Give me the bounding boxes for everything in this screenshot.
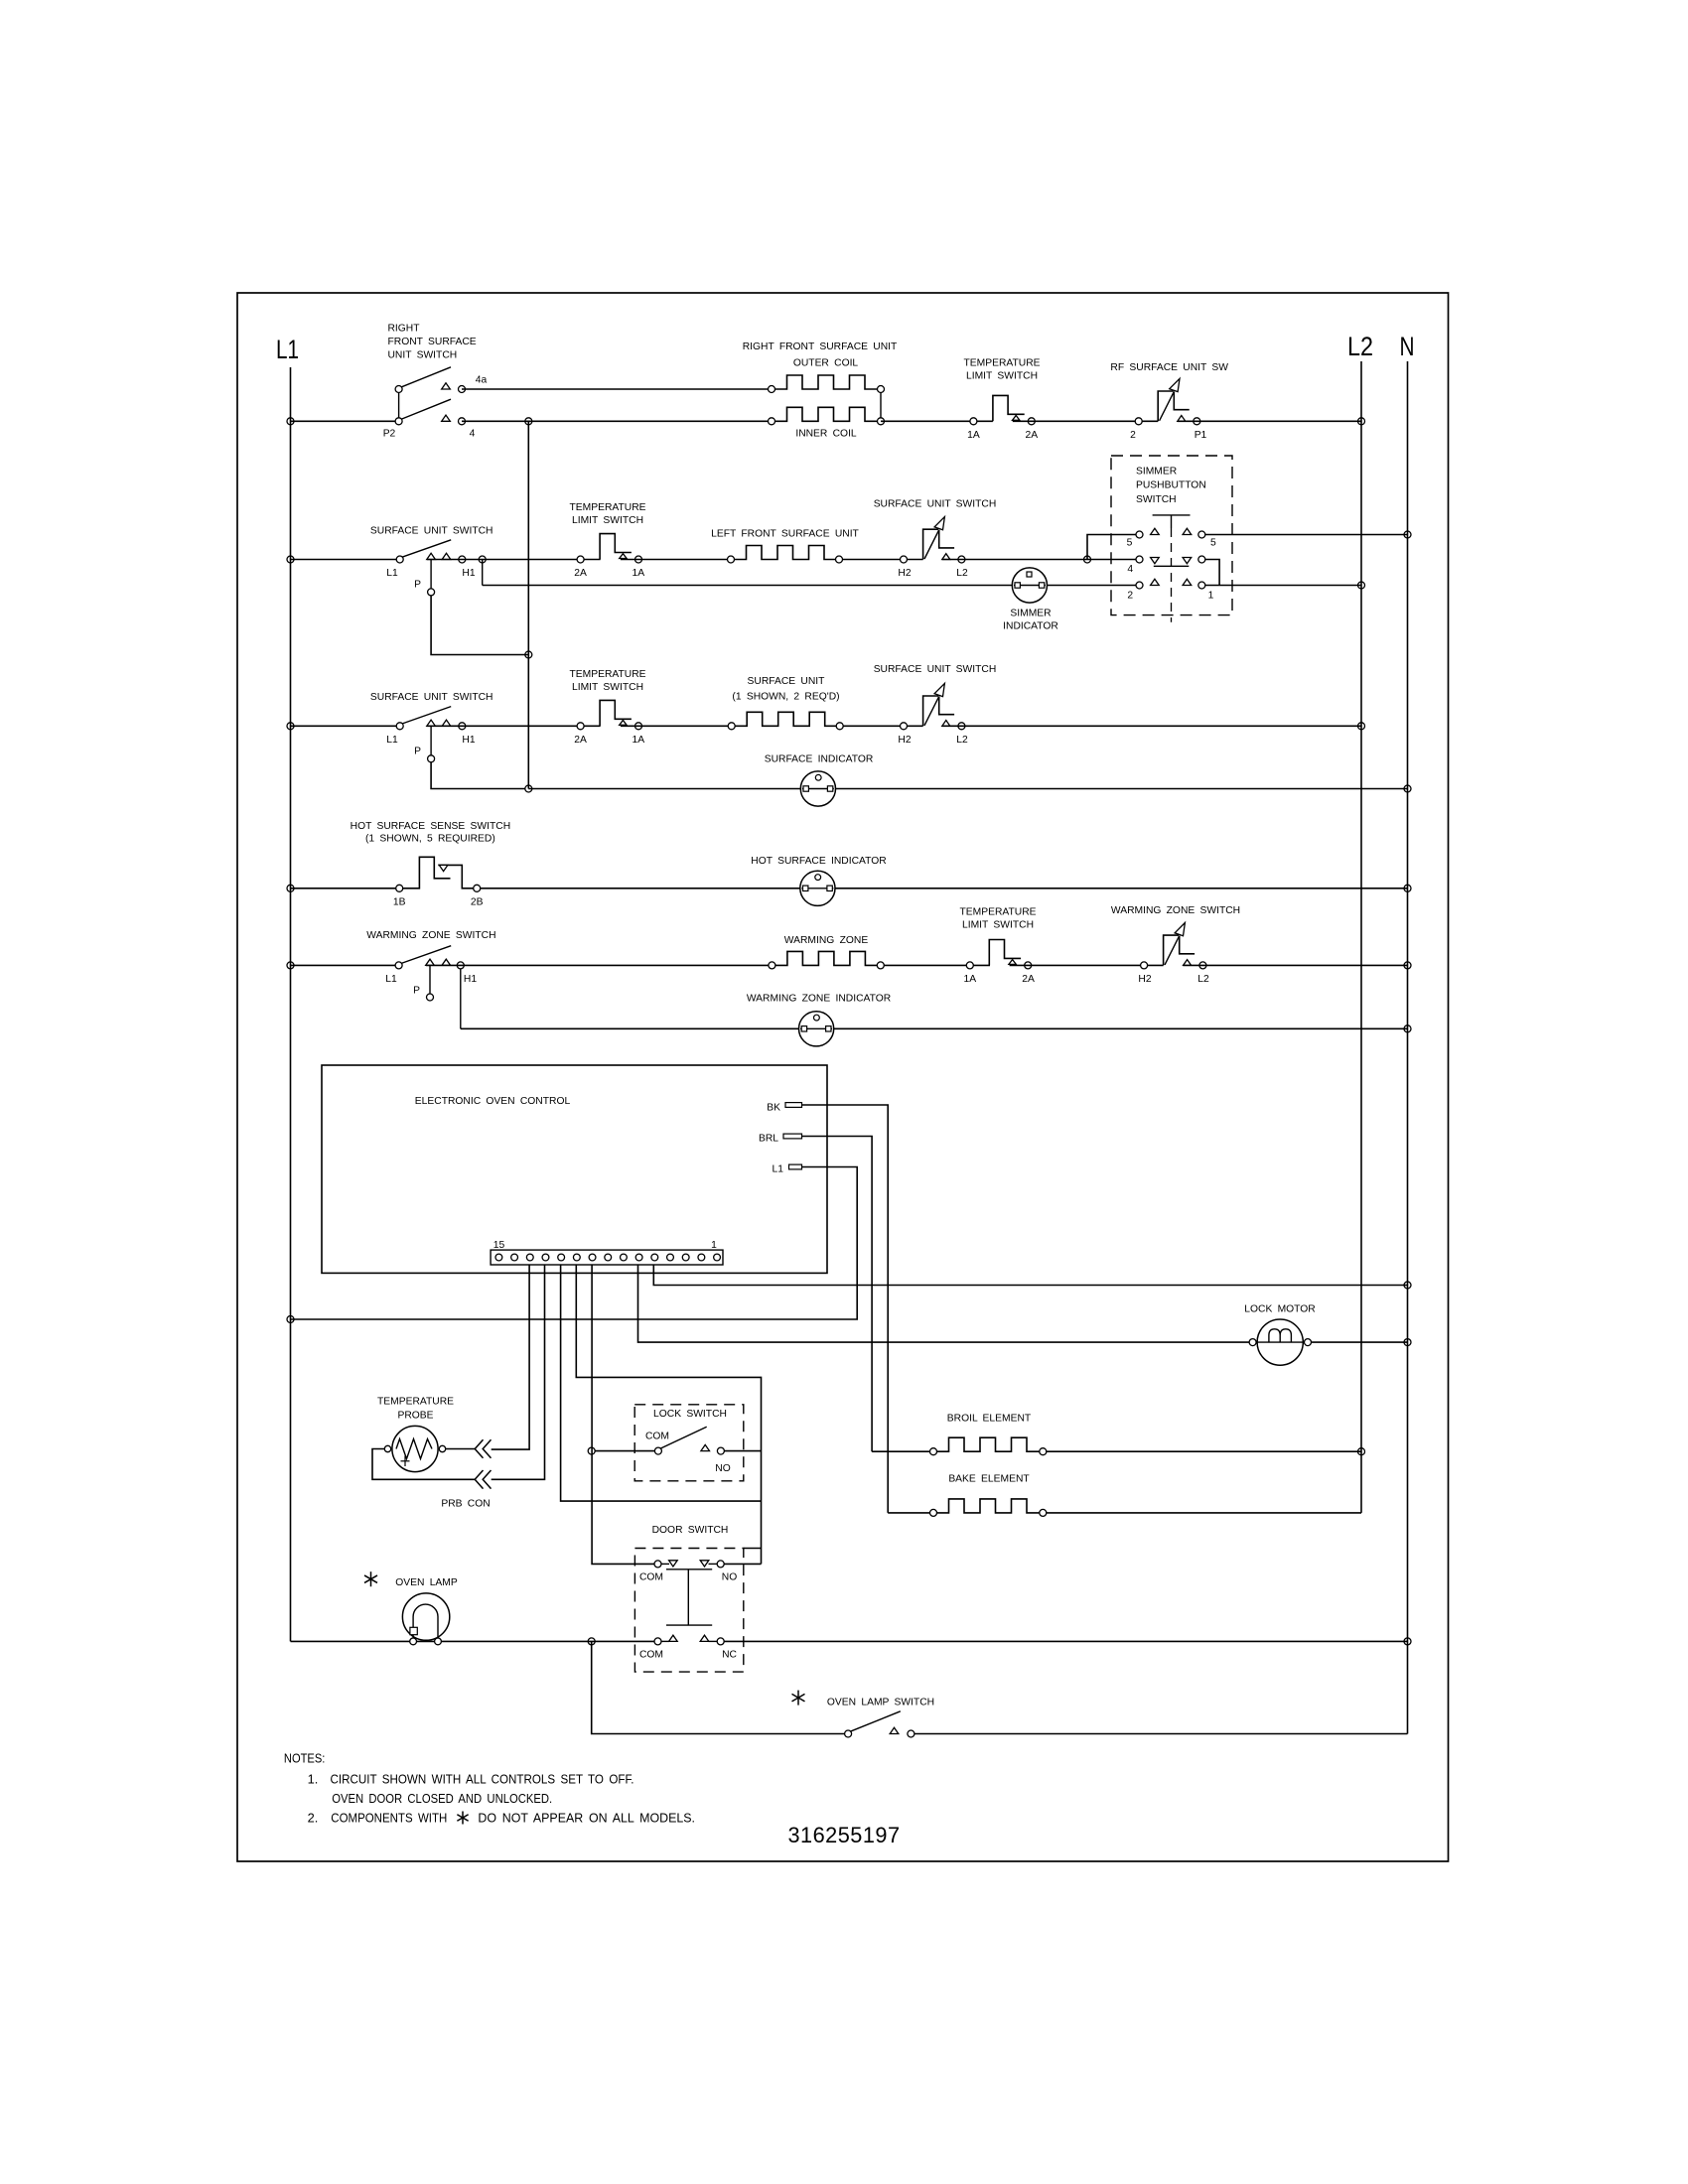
- svg-text:BRL: BRL: [759, 1134, 778, 1145]
- junction row1 drop node: [525, 418, 532, 425]
- svg-text:1A: 1A: [632, 568, 644, 579]
- svg-text:1B: 1B: [393, 896, 406, 907]
- asterisk oven lamp switch: [797, 1691, 799, 1706]
- terminal BRL: [783, 1134, 802, 1139]
- svg-text:COMPONENTS WITH: COMPONENTS WITH: [331, 1811, 447, 1826]
- wire connector pin 12 to probe return: [492, 1265, 545, 1479]
- wire probe right terminal to chevron: [446, 1448, 476, 1450]
- simmer switch pin4 link bar: [1154, 565, 1190, 567]
- wire and pin P row2: [430, 560, 432, 589]
- wire row3 temperature limit switch to coil: [621, 725, 733, 727]
- heater surface unit coil: [732, 712, 840, 726]
- junction broil element at L2 bus: [1358, 1448, 1365, 1455]
- svg-text:P: P: [414, 746, 421, 756]
- pin circle L2 row5: [1199, 962, 1206, 969]
- switch door switch lower COM NC: [661, 1640, 669, 1642]
- svg-text:NOTES:: NOTES:: [284, 1751, 326, 1766]
- thermistor temperature probe: [392, 1426, 438, 1471]
- wire row3 L2 contact to L2 bus: [942, 725, 1361, 727]
- svg-text:H2: H2: [898, 568, 911, 579]
- svg-text:DO NOT APPEAR ON ALL MODELS.: DO NOT APPEAR ON ALL MODELS.: [478, 1811, 695, 1826]
- svg-text:H1: H1: [464, 974, 477, 985]
- wire connector pin 6 lock motor row: [638, 1265, 1408, 1342]
- svg-text:SURFACE UNIT SWITCH: SURFACE UNIT SWITCH: [874, 499, 997, 510]
- svg-text:SWITCH: SWITCH: [1136, 494, 1177, 505]
- svg-text:NO: NO: [715, 1463, 730, 1474]
- wire connector pin 13 to probe: [492, 1265, 529, 1449]
- svg-text:HOT SURFACE SENSE SWITCH: HOT SURFACE SENSE SWITCH: [351, 821, 510, 832]
- temperature limit switch row2: [600, 534, 632, 560]
- wire drop from row2 H1 node to simmer indicator row: [482, 560, 484, 586]
- simmer switch center dashed line: [1171, 528, 1173, 622]
- junction row1 at L1 bus: [287, 418, 294, 425]
- svg-text:TEMPERATURE: TEMPERATURE: [569, 669, 645, 680]
- svg-text:(1 SHOWN, 5 REQUIRED): (1 SHOWN, 5 REQUIRED): [365, 834, 495, 845]
- heater bake element: [933, 1499, 1043, 1513]
- junction row3 at L2 bus: [1358, 723, 1365, 730]
- wire warming zone indicator row: [461, 1027, 1408, 1029]
- svg-text:FRONT SURFACE: FRONT SURFACE: [388, 337, 477, 347]
- svg-text:CIRCUIT SHOWN WITH ALL CONTROL: CIRCUIT SHOWN WITH ALL CONTROLS SET TO O…: [331, 1771, 634, 1786]
- wire bake element row left: [888, 1512, 934, 1514]
- svg-text:5: 5: [1127, 538, 1133, 549]
- connector chevron PRB upper: [475, 1439, 483, 1458]
- wire row1 main from switch to coils: [462, 420, 773, 422]
- svg-text:L2: L2: [1347, 332, 1373, 361]
- svg-text:RF SURFACE UNIT SW: RF SURFACE UNIT SW: [1110, 362, 1228, 373]
- wire row3 coil to H2: [839, 725, 923, 727]
- svg-text:L2: L2: [956, 568, 968, 579]
- junction L1 output at L1 bus: [287, 1316, 294, 1323]
- svg-text:LIMIT SWITCH: LIMIT SWITCH: [966, 371, 1038, 382]
- svg-text:TEMPERATURE: TEMPERATURE: [377, 1397, 454, 1408]
- wire row3 from L1 bus to switch: [291, 725, 397, 727]
- pin circle L2 row2: [958, 556, 965, 563]
- svg-text:WARMING ZONE: WARMING ZONE: [784, 935, 869, 946]
- wire vertical drop from row1 to surface indicator row: [527, 421, 529, 788]
- motor lock motor: [1257, 1319, 1303, 1365]
- junction warming zone indicator at N bus: [1404, 1025, 1411, 1032]
- svg-text:P: P: [413, 986, 420, 997]
- wire door top COM extension: [744, 1548, 762, 1550]
- pin circle P1: [1194, 418, 1200, 425]
- svg-text:TEMPERATURE: TEMPERATURE: [963, 358, 1040, 369]
- wire branch up to simmer pin 5 row: [1087, 535, 1136, 560]
- wire oven lamp switch drop: [592, 1641, 845, 1733]
- indicator simmer indicator: [1012, 568, 1047, 603]
- junction row1 at L2 bus: [1358, 418, 1365, 425]
- svg-text:OUTER COIL: OUTER COIL: [793, 358, 859, 369]
- contact triangle RF switch: [1178, 416, 1186, 422]
- svg-text:SIMMER: SIMMER: [1136, 466, 1177, 477]
- pin circle H2 row3: [901, 723, 908, 730]
- svg-text:P2: P2: [383, 428, 396, 439]
- svg-text:RIGHT: RIGHT: [388, 324, 421, 335]
- wire row4 2B to N bus: [481, 887, 1408, 889]
- junction row5 at N bus: [1404, 962, 1411, 969]
- wire connector pin 9 to lock COM and door COM: [592, 1265, 654, 1564]
- svg-text:4: 4: [1127, 564, 1133, 575]
- wire row2 P to drop vertical: [431, 596, 528, 655]
- svg-text:PRB CON: PRB CON: [441, 1499, 490, 1510]
- svg-text:SURFACE INDICATOR: SURFACE INDICATOR: [765, 754, 874, 765]
- svg-text:SURFACE UNIT SWITCH: SURFACE UNIT SWITCH: [370, 692, 493, 703]
- svg-text:COM: COM: [645, 1432, 669, 1442]
- indicator hot surface indicator: [800, 871, 835, 905]
- svg-text:4a: 4a: [476, 374, 488, 385]
- svg-text:N: N: [1400, 332, 1415, 361]
- wire door NO to branch vertical: [724, 1563, 761, 1565]
- svg-text:LIMIT SWITCH: LIMIT SWITCH: [962, 920, 1034, 931]
- wire row1 temperature limit switch to RF switch: [1013, 420, 1158, 422]
- heater warming zone coil: [772, 951, 880, 965]
- svg-text:LIMIT SWITCH: LIMIT SWITCH: [572, 515, 643, 526]
- wire connector pin 5 to N bus: [653, 1265, 1407, 1286]
- switch surface unit switch arrow row3: [923, 696, 938, 726]
- svg-text:2: 2: [1130, 430, 1136, 441]
- svg-text:H2: H2: [898, 735, 911, 746]
- svg-text:LEFT FRONT SURFACE UNIT: LEFT FRONT SURFACE UNIT: [711, 529, 859, 540]
- heater outer coil: [772, 375, 881, 389]
- junction oven lamp row drop node: [588, 1638, 595, 1645]
- svg-text:316255197: 316255197: [788, 1823, 901, 1847]
- wire broil element row right: [1042, 1450, 1361, 1452]
- wire simmer pin4 jog to pin1 row: [1205, 560, 1219, 586]
- svg-text:PROBE: PROBE: [397, 1411, 433, 1422]
- pin circle 2 of RF surface unit switch: [1135, 418, 1142, 425]
- wire row1 main coils to temperature limit switch: [881, 420, 993, 422]
- svg-text:OVEN DOOR CLOSED AND UNLOCKED.: OVEN DOOR CLOSED AND UNLOCKED.: [332, 1791, 552, 1806]
- switch surface unit switch row2: [401, 540, 452, 558]
- connector chevron PRB lower: [475, 1470, 483, 1489]
- wire oven lamp switch to N bus: [914, 1733, 1408, 1735]
- lamp oven lamp: [402, 1593, 449, 1640]
- svg-text:(1 SHOWN, 2 REQ'D): (1 SHOWN, 2 REQ'D): [732, 692, 839, 703]
- svg-text:PUSHBUTTON: PUSHBUTTON: [1136, 480, 1206, 491]
- indicator warming zone indicator: [799, 1012, 834, 1046]
- wire drop from H1 to warming zone indicator row: [460, 969, 462, 1028]
- wire surface indicator row: [528, 788, 1407, 790]
- wire row5 from L1 bus to switch: [291, 964, 396, 966]
- page border frame: [237, 293, 1449, 1861]
- simmer switch pin 4 contacts: [1136, 556, 1143, 563]
- junction surface indicator row at N bus: [1404, 785, 1411, 792]
- svg-text:15: 15: [493, 1240, 505, 1251]
- svg-text:2: 2: [1127, 591, 1133, 602]
- switch S1 right front surface unit switch: [398, 393, 400, 418]
- svg-text:H1: H1: [462, 568, 475, 579]
- svg-text:1.: 1.: [308, 1771, 319, 1786]
- wire row1 RF switch to L2 bus: [1178, 420, 1361, 422]
- box door switch dashed: [634, 1549, 743, 1673]
- wire row5 temp limit to H2: [1010, 964, 1164, 966]
- svg-text:5: 5: [1210, 538, 1216, 549]
- contact triangle row3 L2: [942, 721, 950, 727]
- svg-text:L1: L1: [386, 568, 398, 579]
- terminal L1 output: [789, 1164, 802, 1169]
- svg-text:2A: 2A: [574, 568, 587, 579]
- svg-text:DOOR SWITCH: DOOR SWITCH: [652, 1525, 729, 1536]
- box electronic oven control: [322, 1065, 827, 1273]
- wire row5 L2 contact to N bus: [1183, 964, 1407, 966]
- junction row5 at L1 bus: [287, 962, 294, 969]
- svg-text:BAKE ELEMENT: BAKE ELEMENT: [948, 1474, 1030, 1485]
- wire simmer pin5 row to N bus: [1205, 534, 1408, 536]
- wire L2 bus: [1360, 361, 1362, 1513]
- svg-text:INNER COIL: INNER COIL: [795, 428, 857, 439]
- svg-text:H1: H1: [462, 735, 475, 746]
- svg-text:SURFACE UNIT SWITCH: SURFACE UNIT SWITCH: [874, 664, 997, 675]
- simmer switch pin 5 contacts: [1136, 531, 1143, 538]
- pin circle L2 row3: [958, 723, 965, 730]
- wire connecting outer and inner coil right terminals: [880, 393, 882, 418]
- svg-text:L1: L1: [386, 735, 398, 746]
- wire probe left loop: [372, 1449, 475, 1480]
- svg-text:LIMIT SWITCH: LIMIT SWITCH: [572, 682, 643, 693]
- junction row3 P at drop vertical: [525, 785, 532, 792]
- switch warming zone switch arrow: [1164, 935, 1179, 965]
- svg-text:SIMMER: SIMMER: [1010, 609, 1051, 619]
- svg-text:OVEN LAMP SWITCH: OVEN LAMP SWITCH: [827, 1698, 934, 1708]
- switch surface unit switch arrow row2: [923, 529, 938, 559]
- svg-text:L1: L1: [276, 335, 299, 364]
- junction row4 at N bus: [1404, 885, 1411, 891]
- contact triangle row2 L2: [942, 554, 950, 560]
- wire row2 L2 contact to simmer box pin 4: [942, 559, 1136, 561]
- svg-text:SURFACE UNIT: SURFACE UNIT: [748, 676, 826, 687]
- svg-text:L1: L1: [385, 974, 397, 985]
- svg-text:2B: 2B: [471, 896, 484, 907]
- svg-text:ELECTRONIC OVEN CONTROL: ELECTRONIC OVEN CONTROL: [415, 1096, 571, 1107]
- junction simmer pin1 at L2 bus: [1358, 582, 1365, 589]
- wire broil element row left: [872, 1450, 934, 1452]
- junction row3 at L1 bus: [287, 723, 294, 730]
- wire row4 from L1 bus to 1B: [291, 887, 397, 889]
- temperature limit switch row1: [993, 395, 1025, 421]
- svg-text:P: P: [414, 580, 421, 591]
- svg-text:INDICATOR: INDICATOR: [1003, 621, 1058, 632]
- wire door NC to N bus: [724, 1640, 1407, 1642]
- door switch plunger: [666, 1569, 712, 1570]
- switch door switch upper COM NO: [661, 1563, 669, 1565]
- svg-text:NC: NC: [722, 1650, 737, 1661]
- simmer switch actuator bar: [1153, 514, 1191, 516]
- switch lock switch: [654, 1447, 661, 1454]
- svg-text:2A: 2A: [574, 735, 587, 746]
- svg-text:1: 1: [711, 1240, 717, 1251]
- svg-text:BROIL ELEMENT: BROIL ELEMENT: [947, 1414, 1032, 1425]
- junction lock motor row at N bus: [1404, 1339, 1411, 1346]
- heater left front surface unit coil: [731, 546, 839, 560]
- wire BRL output to broil element: [802, 1137, 873, 1452]
- asterisk oven lamp: [370, 1571, 372, 1586]
- wire lock COM: [595, 1450, 654, 1452]
- junction row2 branch node: [1084, 556, 1091, 563]
- switch RF surface unit switch: [1158, 391, 1173, 421]
- indicator surface indicator: [800, 771, 835, 806]
- junction row2 H1 drop node: [479, 556, 486, 563]
- svg-text:COM: COM: [639, 1650, 663, 1661]
- svg-text:1A: 1A: [632, 735, 644, 746]
- wire row3 P to surface indicator row: [431, 762, 525, 789]
- wire L1 output to L1 bus: [291, 1167, 858, 1320]
- svg-text:WARMING ZONE INDICATOR: WARMING ZONE INDICATOR: [747, 994, 891, 1005]
- pin circle H2 row2: [901, 556, 908, 563]
- svg-text:LOCK SWITCH: LOCK SWITCH: [653, 1409, 727, 1420]
- wire L1 bus: [290, 367, 292, 1641]
- svg-text:2A: 2A: [1022, 974, 1035, 985]
- svg-text:4: 4: [470, 428, 476, 439]
- wire connector pin 10 to lock and door NO: [576, 1265, 761, 1564]
- svg-text:L1: L1: [773, 1164, 784, 1175]
- simmer switch pin 2-1 contacts: [1136, 582, 1143, 589]
- svg-text:LOCK MOTOR: LOCK MOTOR: [1244, 1304, 1315, 1315]
- temperature limit switch row5: [989, 940, 1021, 966]
- temperature limit switch row3: [600, 700, 632, 726]
- wire oven lamp row from L1 bus: [291, 1640, 655, 1642]
- terminal BK: [785, 1103, 802, 1108]
- svg-text:OVEN LAMP: OVEN LAMP: [395, 1577, 458, 1588]
- junction lock COM at pin9 wire: [588, 1447, 595, 1454]
- junction pin5 wire at N bus: [1404, 1282, 1411, 1289]
- svg-text:HOT SURFACE INDICATOR: HOT SURFACE INDICATOR: [751, 856, 886, 867]
- wire connector pin 11 to door switch NO branch: [561, 1265, 762, 1501]
- svg-text:1: 1: [1208, 591, 1214, 602]
- svg-text:1A: 1A: [967, 430, 980, 441]
- svg-text:TEMPERATURE: TEMPERATURE: [569, 502, 645, 513]
- wire simmer indicator row: [483, 585, 1136, 587]
- wire row1 branch 4a to outer coil: [462, 388, 772, 390]
- pin circle H2 row5: [1141, 962, 1148, 969]
- svg-text:UNIT SWITCH: UNIT SWITCH: [388, 350, 458, 361]
- svg-text:P1: P1: [1195, 430, 1207, 441]
- svg-text:WARMING ZONE SWITCH: WARMING ZONE SWITCH: [366, 930, 495, 941]
- wire N bus: [1407, 361, 1409, 1734]
- wire bake element row right: [1042, 1512, 1361, 1514]
- switch surface unit switch row3: [401, 707, 452, 725]
- svg-text:2A: 2A: [1025, 430, 1038, 441]
- heater inner coil: [772, 407, 881, 421]
- svg-text:COM: COM: [639, 1572, 663, 1583]
- junction row2 at L1 bus: [287, 556, 294, 563]
- svg-text:SURFACE UNIT SWITCH: SURFACE UNIT SWITCH: [370, 526, 493, 537]
- box simmer pushbutton switch dashed: [1111, 456, 1232, 615]
- svg-text:L2: L2: [956, 735, 968, 746]
- switch oven lamp switch: [845, 1730, 852, 1737]
- heater broil element: [933, 1437, 1043, 1451]
- wire and pin P row5: [429, 965, 431, 994]
- wire lock NO to branch vertical: [724, 1450, 761, 1452]
- svg-text:NO: NO: [722, 1572, 737, 1583]
- box lock switch dashed: [634, 1405, 744, 1481]
- junction row2 P at drop vertical: [525, 651, 532, 658]
- wire row2 temperature limit switch to coil: [621, 559, 732, 561]
- wire row2 coil to H2: [838, 559, 923, 561]
- wire BK output to bake element: [802, 1105, 889, 1513]
- wire row2 from L1 bus to switch: [291, 559, 397, 561]
- svg-text:L2: L2: [1197, 974, 1209, 985]
- junction simmer pin5 at N bus: [1404, 531, 1411, 538]
- svg-text:2.: 2.: [308, 1811, 319, 1826]
- svg-text:WARMING ZONE SWITCH: WARMING ZONE SWITCH: [1111, 905, 1240, 916]
- junction door NC row at N bus: [1404, 1638, 1411, 1645]
- junction row4 at L1 bus: [287, 885, 294, 891]
- svg-text:TEMPERATURE: TEMPERATURE: [959, 907, 1036, 918]
- switch warming zone switch: [401, 946, 452, 964]
- wire row1 main from L1 bus to switch: [291, 420, 396, 422]
- svg-text:RIGHT FRONT SURFACE UNIT: RIGHT FRONT SURFACE UNIT: [743, 341, 898, 352]
- wire simmer pin1 row to L2 bus: [1205, 585, 1361, 587]
- switch hot surface sense switch: [403, 857, 451, 888]
- wire and pin P row3: [430, 726, 432, 755]
- connector strip: [491, 1250, 723, 1265]
- svg-text:BK: BK: [767, 1103, 780, 1114]
- svg-text:H2: H2: [1138, 974, 1151, 985]
- contact triangle row5 L2: [1184, 960, 1192, 966]
- svg-text:1A: 1A: [963, 974, 976, 985]
